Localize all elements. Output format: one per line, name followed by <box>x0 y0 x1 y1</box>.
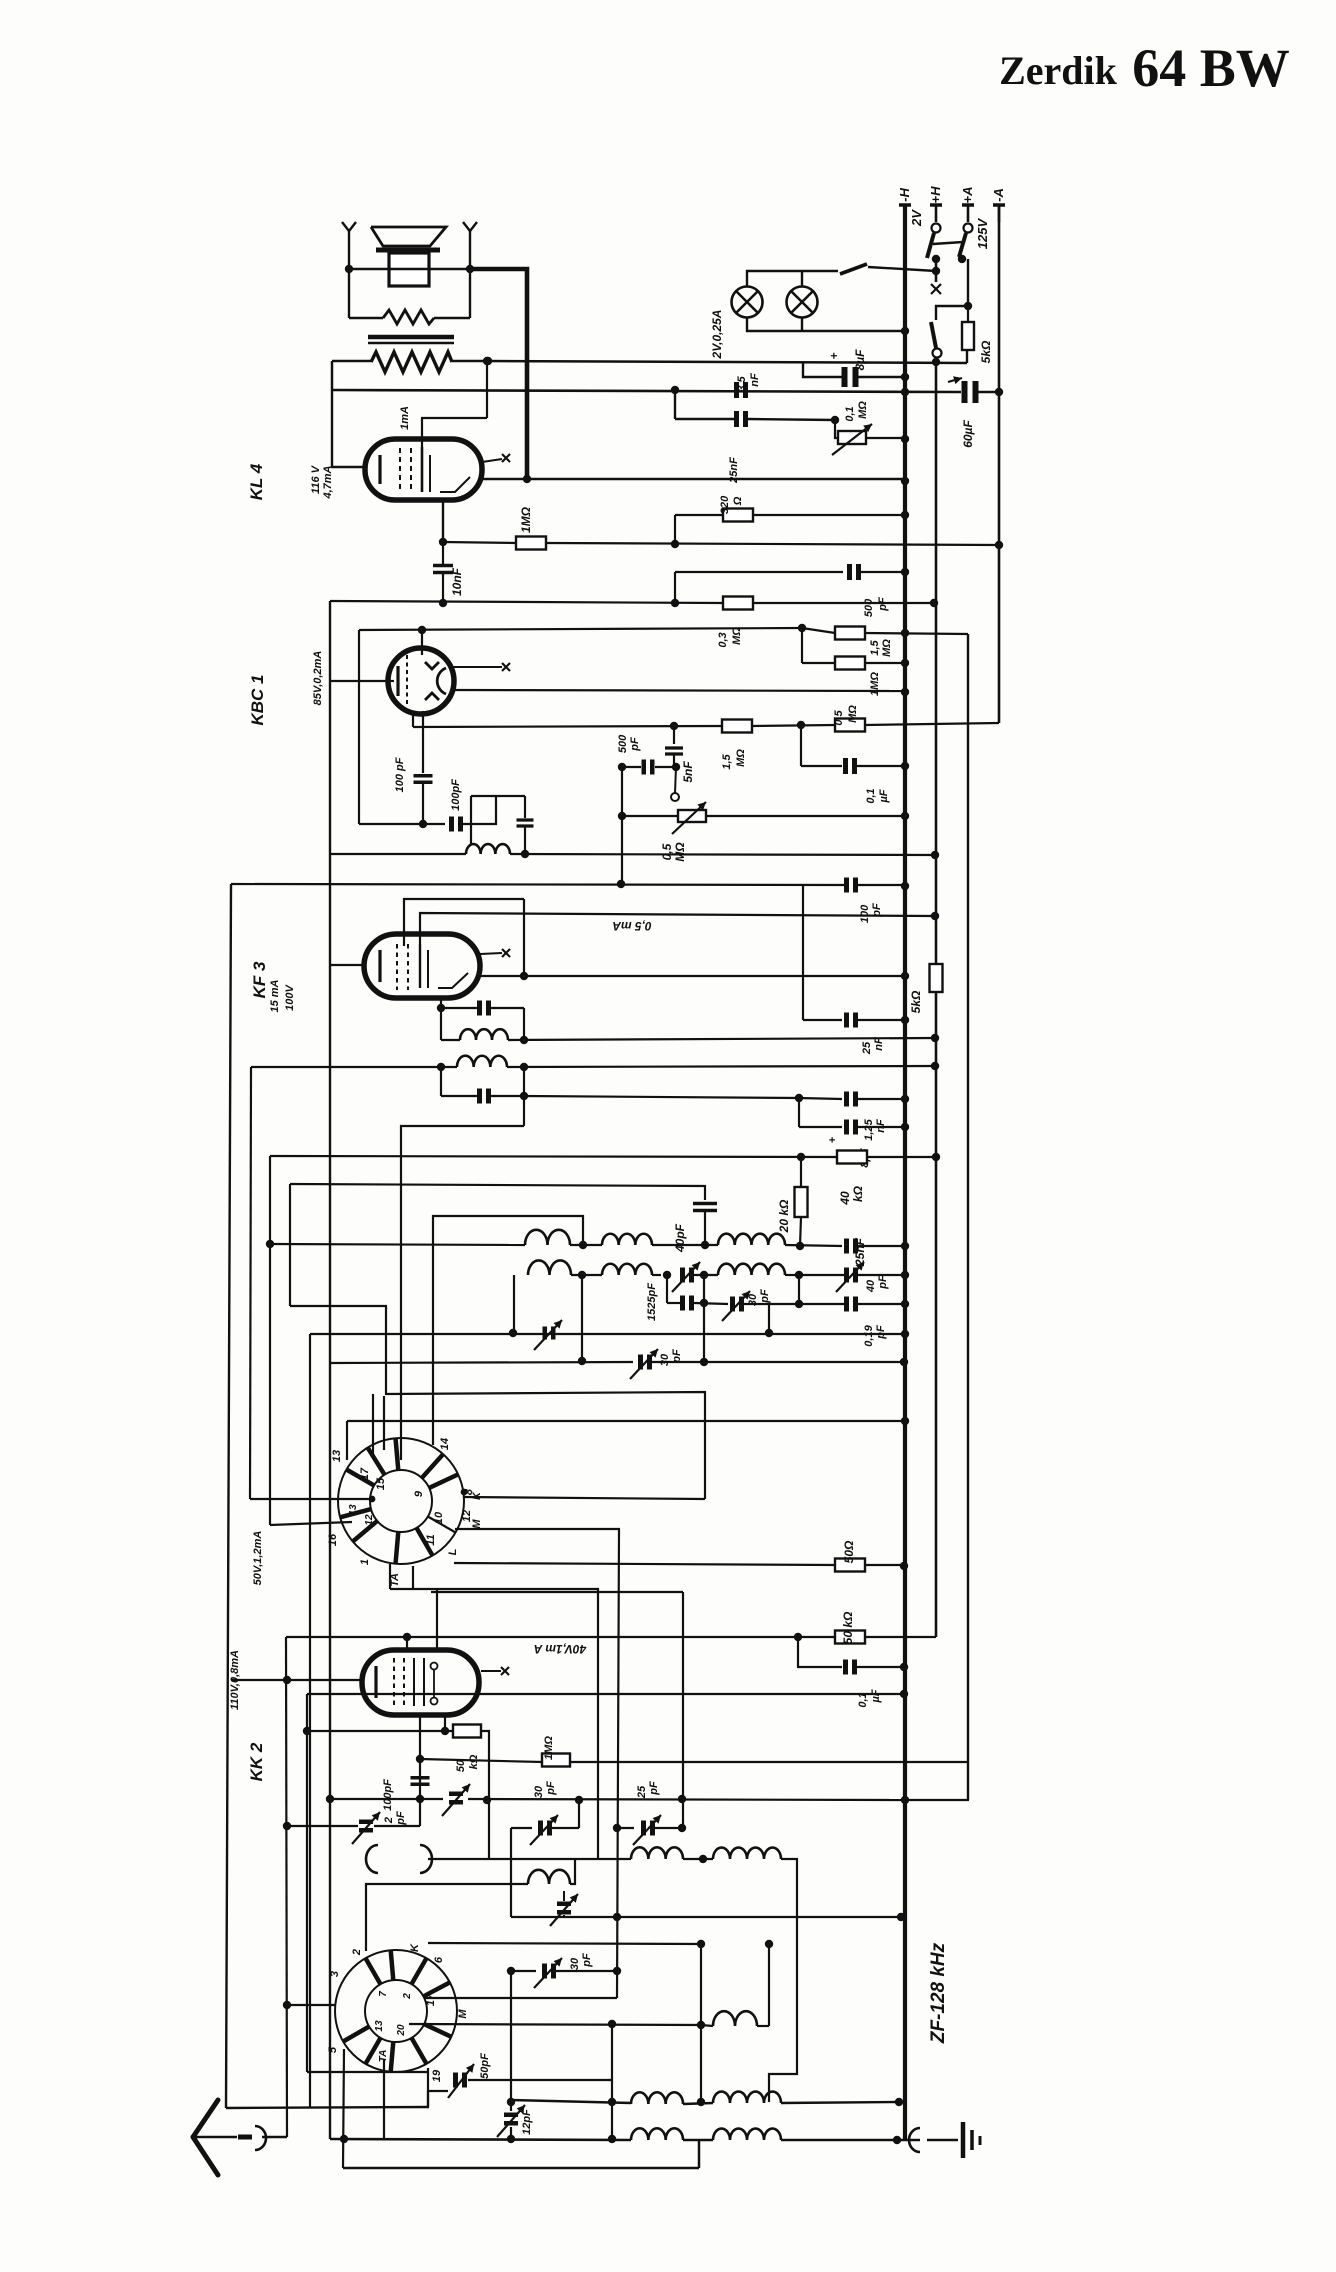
wire osc top <box>366 1884 528 1951</box>
tube KL4 anode <box>421 447 424 492</box>
svg-text:12pF: 12pF <box>521 2109 533 2135</box>
svg-text:5kΩ: 5kΩ <box>909 990 923 1013</box>
svg-text:25nF: 25nF <box>853 1237 867 1267</box>
wire 582 drop2 <box>581 1275 583 1361</box>
wire voicecoil left <box>349 317 383 319</box>
wire screen to row361 <box>486 361 488 418</box>
capacitor 0.19pF <box>844 1297 849 1312</box>
tube KK2 grids <box>393 1658 395 1706</box>
wire 511 vert3 <box>510 2127 512 2139</box>
svg-text:30: 30 <box>659 1353 671 1366</box>
svg-text:+: + <box>827 1136 839 1143</box>
wire KBC1 bottom pin <box>412 711 414 727</box>
svg-text:M: M <box>457 2009 469 2019</box>
wire row 1020 <box>803 1019 842 1021</box>
tube KF3 anode <box>419 944 421 988</box>
junction cathode rail <box>523 475 531 483</box>
wire KBC1 anode <box>421 630 423 655</box>
switch S1 on +H rail <box>932 224 941 233</box>
wire row 1067 left <box>251 1066 457 1068</box>
junction KBC1 anode top <box>418 626 426 634</box>
svg-text:kΩ: kΩ <box>468 1754 480 1769</box>
tube KF3 cathode <box>378 950 381 982</box>
tube KBC1 diode plates <box>425 662 439 669</box>
wire KF3 grid2 top <box>420 913 935 944</box>
wire row 1828 a2 <box>552 1827 579 1829</box>
svg-text:50pF: 50pF <box>479 2053 491 2079</box>
wire socket pinL row <box>454 1563 835 1565</box>
wire row 1275 r3 <box>858 1274 905 1276</box>
wire jog 1126 <box>401 1126 524 1460</box>
junction speaker wires <box>345 265 353 273</box>
wire row 1799 <box>330 1798 443 1800</box>
junction row2005 <box>283 2001 291 2009</box>
svg-text:0,3: 0,3 <box>717 632 729 647</box>
wire lamp top rail <box>747 271 838 287</box>
svg-text:13: 13 <box>331 1450 343 1462</box>
svg-text:Ω: Ω <box>732 496 744 506</box>
wire row 2140 b <box>683 2139 713 2142</box>
svg-text:60µF: 60µF <box>961 420 975 448</box>
wire 617 drop dots <box>616 1827 618 1829</box>
wire row 1828 b <box>617 1827 634 1829</box>
x mark KK2 pin <box>481 1670 501 1672</box>
wire row 1731 <box>307 1730 452 1732</box>
wire row 2026 c <box>757 2025 769 2027</box>
wire row 2099 left <box>511 2100 631 2103</box>
svg-text:2V,0,25A: 2V,0,25A <box>710 310 724 360</box>
wire socket top verts <box>372 1394 374 1455</box>
wire +H to lamp line <box>935 271 938 282</box>
wire row 1304 <box>667 1302 680 1304</box>
coil L14 <box>631 2092 683 2104</box>
wire LC right b <box>524 827 526 854</box>
wire row 1304 r <box>769 1303 845 1305</box>
wire vert 251 <box>250 1067 251 1499</box>
wire row 854 b <box>510 854 935 855</box>
wire row 824 <box>359 823 445 825</box>
tube socket oscillator <box>335 1950 457 2072</box>
terminal -A stub <box>993 203 1005 207</box>
junction pot row <box>618 812 626 820</box>
wire voicecoil right <box>434 317 470 319</box>
junction row543 <box>671 540 679 548</box>
svg-text:ZF-128 kHz: ZF-128 kHz <box>928 1942 949 2044</box>
svg-text:0,5: 0,5 <box>660 843 674 860</box>
coil L7 <box>528 1260 571 1275</box>
wire row 1127 b <box>858 1126 905 1128</box>
wire row 1859 b <box>683 1858 713 1860</box>
junction row2102 rail <box>895 2098 903 2106</box>
svg-text:2: 2 <box>351 1949 363 1956</box>
speaker cone <box>371 227 446 246</box>
svg-text:pF: pF <box>877 1275 889 1290</box>
wire row 663 b <box>865 662 905 664</box>
svg-text:85V,0,2mA: 85V,0,2mA <box>312 651 324 706</box>
wire row 1592 stub <box>431 1591 683 1593</box>
junction 420 <box>416 1755 424 1763</box>
wire 344 vert <box>343 2049 344 2168</box>
svg-text:30: 30 <box>747 1293 759 1306</box>
svg-text:40V,1m A: 40V,1m A <box>534 1642 587 1656</box>
wire row 1099 <box>799 1098 842 1099</box>
wire row 1040 <box>508 1038 935 1040</box>
tube socket KK2 viewed from below <box>338 1438 464 1564</box>
wire row 419 <box>675 418 734 420</box>
junction plate row <box>520 972 528 980</box>
switch S3 voltage selector <box>931 322 936 348</box>
svg-text:pF: pF <box>581 1953 593 1968</box>
junction row2140 <box>340 2135 348 2143</box>
potentiometer 0.5MO wiper circle <box>671 793 679 801</box>
svg-text:40: 40 <box>838 1191 852 1206</box>
wire row 633 <box>802 628 835 633</box>
wire 8uF branch <box>803 362 844 377</box>
svg-text:100pF: 100pF <box>382 1779 394 1811</box>
resistor 1.5MO diode load <box>835 627 865 640</box>
wire row 572 b <box>860 571 905 573</box>
svg-text:MΩ: MΩ <box>731 627 743 645</box>
svg-text:4,7mA: 4,7mA <box>322 465 334 499</box>
wire row 1245 r <box>785 1245 842 1246</box>
junction row1067 <box>437 1063 445 1071</box>
wire row 727 b <box>752 725 835 726</box>
wire row 603 b <box>753 602 934 604</box>
wire LC2 bottom b <box>490 1095 524 1097</box>
switch S2 on +A rail <box>964 224 973 233</box>
junction row 361 <box>484 357 492 365</box>
coil L1 KBC1 <box>466 844 510 854</box>
wire socket left 1499 <box>250 1498 372 1500</box>
svg-text:25: 25 <box>636 1785 648 1799</box>
wire pot row 816 b <box>706 815 905 817</box>
coil L6 <box>718 1234 785 1245</box>
junction row1799 <box>326 1795 334 1803</box>
svg-text:100: 100 <box>859 904 871 923</box>
wire osc top b <box>570 1859 575 1884</box>
wire row 515 b <box>753 514 905 516</box>
wire row 2005 <box>287 2004 336 2006</box>
coil L4 <box>525 1230 570 1245</box>
tube KBC1 envelope <box>388 648 454 714</box>
wire antenna to vert <box>262 2136 287 2138</box>
junction row1859 <box>699 1855 707 1863</box>
x mark KBC1 pin <box>453 666 502 668</box>
wire row 1275 r <box>785 1274 799 1276</box>
capacitor trimmer 25pF band <box>641 1821 646 1836</box>
wire 675 drop to 419 <box>674 390 676 419</box>
capacitor trimmer 30pF band <box>538 1821 543 1836</box>
wire rail -H vertical <box>903 205 907 2140</box>
svg-text:125V: 125V <box>975 217 990 249</box>
capacitor 2nd IF <box>680 1296 685 1311</box>
wire LC2 right <box>523 1067 525 1126</box>
coil L12 osc <box>528 1870 570 1884</box>
wire 513 up <box>513 1275 515 1333</box>
tube KL4 cathode <box>378 455 381 484</box>
junction 799 1098 <box>795 1094 803 1102</box>
svg-text:KK 2: KK 2 <box>247 1742 266 1781</box>
svg-text:15: 15 <box>375 1477 387 1490</box>
junction row1971 <box>507 1967 515 1975</box>
junction row1245 l <box>266 1240 274 1248</box>
capacitor 10nF <box>433 564 453 567</box>
junction row884 <box>617 880 625 888</box>
junction row628 <box>798 624 806 632</box>
wire rail 936 upper <box>935 362 938 964</box>
coil L16 <box>631 2128 683 2140</box>
wire KF3 524 drop <box>523 899 525 976</box>
wire row 1246 r2 <box>858 1245 905 1247</box>
wire KF3 grid <box>330 964 364 966</box>
wire row 1099 b <box>858 1098 905 1100</box>
wire socket pin12 row <box>455 1529 619 1998</box>
potentiometer 0.1MO <box>838 431 866 444</box>
wire row 2139 <box>330 2139 631 2140</box>
wire row 1157 b <box>867 1156 936 1158</box>
wire row 1917 <box>511 1916 901 1918</box>
svg-text:100V: 100V <box>284 983 296 1010</box>
junction row572 rail <box>901 568 909 576</box>
wire row 2140 c <box>781 2139 920 2142</box>
wire socket bottom stub2 <box>412 1566 414 1589</box>
svg-text:100 pF: 100 pF <box>394 757 406 792</box>
wire 5nF top <box>673 726 675 744</box>
wire speaker top rail <box>349 268 470 270</box>
wire pot wiper <box>675 767 676 793</box>
wire 20k top <box>800 1157 802 1187</box>
wire row 1332 <box>310 1333 905 1335</box>
junction socket pin15 <box>369 1496 376 1503</box>
resistor 1MO diode <box>835 657 865 670</box>
capacitor 3.5nF <box>734 382 739 398</box>
junction 441 1008 <box>437 1004 445 1012</box>
svg-text:pF: pF <box>648 1781 660 1796</box>
resistor 50O <box>835 1559 865 1572</box>
wire KL4 screen <box>422 418 487 447</box>
tube KL4 grid dashed <box>399 448 401 492</box>
svg-text:pF: pF <box>877 597 889 612</box>
wire row 1667 b <box>857 1666 904 1668</box>
wire row 1762 b <box>570 1761 968 1763</box>
capacitor 25nF tone <box>734 411 739 427</box>
wire row 1759 <box>420 1759 542 1762</box>
wire 699 up <box>698 2141 701 2168</box>
junction row1731 <box>303 1727 311 1735</box>
wire 701 vert <box>700 1944 702 2102</box>
wire KL4 cathode to rail <box>482 478 905 480</box>
svg-text:MΩ: MΩ <box>847 705 859 723</box>
wire row 1275 m2 <box>652 1274 661 1276</box>
tube KK2 cathode <box>374 1666 377 1698</box>
svg-text:1525pF: 1525pF <box>646 1283 658 1321</box>
wire row 663 <box>802 662 835 664</box>
junction row663 rail <box>901 659 909 667</box>
junction row1637 <box>794 1633 802 1641</box>
wire row 1859 c <box>769 1859 797 2102</box>
capacitor 100pF osc <box>411 1776 430 1779</box>
capacitor 5nF <box>665 746 683 749</box>
wire 799 vert2 <box>798 1275 800 1304</box>
wire HT row 390 <box>332 390 961 392</box>
capacitor trimmer osc1 <box>557 1902 571 1907</box>
junction row390 tap <box>671 386 679 394</box>
wire row 1361 b <box>652 1361 904 1363</box>
wire row 1390 <box>290 1306 705 1499</box>
wire speaker right <box>469 240 471 318</box>
wire 5nF bottom <box>673 755 675 767</box>
wire row 767 <box>622 766 641 768</box>
wire row 824 b <box>462 796 496 824</box>
svg-text:pF: pF <box>875 1325 887 1340</box>
svg-text:+A: +A <box>960 187 975 204</box>
wire vert 231 <box>226 884 231 2108</box>
svg-text:1,25: 1,25 <box>863 1118 875 1140</box>
svg-text:-H: -H <box>897 188 912 202</box>
capacitor 500pF AVC <box>642 760 647 775</box>
wire HT row 361 right <box>452 361 967 363</box>
coil L5 <box>602 1234 652 1245</box>
wire 704 vert <box>703 1275 705 1362</box>
wire row 1799 b <box>468 1799 905 1800</box>
wire LC1 base l <box>441 1039 460 1041</box>
svg-text:pF: pF <box>671 1349 683 1364</box>
svg-text:1: 1 <box>359 1559 371 1565</box>
svg-text:30: 30 <box>569 1957 581 1970</box>
resistor voice coil zigzag <box>383 310 434 324</box>
coil L13 <box>713 2011 757 2026</box>
ground symbol <box>909 2128 920 2152</box>
wire row 1275 m <box>571 1274 602 1276</box>
wire row 1694 <box>307 1693 904 1695</box>
junction row1275 <box>578 1271 586 1279</box>
svg-text:pF: pF <box>629 737 641 752</box>
svg-text:5: 5 <box>327 2046 339 2053</box>
wire 511 vert2 <box>510 1971 512 2111</box>
capacitor 40pF series <box>693 1202 717 1206</box>
wire KBC1 grid row <box>330 680 388 682</box>
wire socket left 1525 <box>270 1522 352 1525</box>
wire row 1245 m2 <box>652 1244 718 1246</box>
wire vert 290 <box>289 1184 291 1306</box>
x mark KL4 pin <box>482 459 502 462</box>
wire rail -A <box>998 205 1001 723</box>
svg-text:14: 14 <box>439 1438 451 1450</box>
wire 667 drop <box>666 1275 668 1303</box>
junction row1694 rail <box>900 1690 908 1698</box>
wire 347 drop <box>346 1421 348 1460</box>
resistor 320O <box>723 509 753 522</box>
potentiometer 0.5MO body <box>678 810 706 822</box>
wire 798 drop <box>798 1637 842 1667</box>
wire 10nF bottom <box>442 573 444 603</box>
junction 524 1096 <box>520 1092 528 1100</box>
svg-text:500: 500 <box>617 734 629 753</box>
wire row 1589 <box>390 1589 598 1859</box>
capacitor 100pF series <box>449 817 454 832</box>
junction row419 <box>831 416 839 424</box>
wire pin19 down <box>428 2068 448 2091</box>
junction row633 rail <box>901 629 909 637</box>
wire socket pin K row <box>464 1497 705 1499</box>
capacitor trimmer 30pF osc <box>542 1964 547 1979</box>
capacitor 1.25nF <box>844 1092 849 1107</box>
wire row 515 <box>675 514 723 516</box>
svg-text:MΩ: MΩ <box>857 401 869 419</box>
svg-text:15 mA: 15 mA <box>269 979 281 1012</box>
svg-text:19: 19 <box>431 2069 443 2082</box>
resistor 0.5MO row727 <box>835 719 865 732</box>
wire LC1 right <box>523 1008 525 1040</box>
wire socket top verts2 <box>383 1396 385 1450</box>
capacitor trimmer 50pF <box>453 2073 458 2088</box>
svg-text:13: 13 <box>374 2020 385 2032</box>
wire 622 vertical <box>621 767 623 884</box>
capacitor 0.1uF bias <box>843 1660 848 1675</box>
wire row 603 <box>330 601 723 603</box>
switch S4 lamp <box>840 264 867 274</box>
wire pin19 ext <box>427 2091 429 2107</box>
junction pot rail <box>901 435 909 443</box>
speaker magnet <box>389 253 429 286</box>
svg-text:MΩ: MΩ <box>673 842 687 862</box>
junction row1565 rail <box>900 1562 908 1570</box>
svg-text:0,1: 0,1 <box>844 406 856 421</box>
terminal +H stub <box>930 203 942 207</box>
svg-text:320: 320 <box>719 495 731 514</box>
wire KF3 plate row <box>480 975 905 977</box>
wire lamp bottom rail <box>747 317 905 331</box>
wire lamp switch to rail <box>868 267 936 271</box>
wire LC2 left <box>440 1067 442 1096</box>
resistor 40kO <box>837 1151 867 1164</box>
svg-text:+H: +H <box>928 186 943 204</box>
resistor 50kO bias <box>835 1631 865 1644</box>
tube KK2 envelope <box>362 1650 479 1715</box>
wire KBC1 top row <box>359 628 802 630</box>
wire KL4 anode down <box>442 500 444 542</box>
svg-text:13: 13 <box>348 1504 359 1516</box>
wire 801 drop <box>800 725 802 766</box>
resistor 1MO KL4 grid <box>516 537 546 550</box>
junction row1421 rail <box>901 1417 909 1425</box>
svg-text:2: 2 <box>383 1817 395 1824</box>
wire pot row 816 <box>622 815 678 817</box>
wire row 1998 <box>424 1997 617 1999</box>
speaker terminal right <box>463 222 477 231</box>
wire pot to rail <box>866 437 905 439</box>
wire HT row 361 left <box>332 360 371 363</box>
wire row1800 ext <box>905 1799 969 1801</box>
wire LC top <box>471 795 525 797</box>
capacitor 8uF cathode <box>844 1120 849 1135</box>
wire vertical 330 long <box>329 601 331 2139</box>
junction row1275 rail <box>901 1271 909 1279</box>
wire KBC1 cathode down <box>422 711 424 773</box>
wire row 1067 right <box>507 1066 935 1067</box>
wire 802 drop <box>801 628 803 663</box>
tube KBC1 grid dashed <box>406 655 408 705</box>
junction row1020 rail <box>901 1016 909 1024</box>
wire row 767 b <box>655 766 676 768</box>
wire 50pF link <box>468 2079 612 2081</box>
svg-text:11: 11 <box>425 1534 437 1545</box>
x mark end of +H <box>931 284 941 294</box>
antenna <box>193 2100 218 2137</box>
lamp LA2 <box>787 287 818 318</box>
wire 675 up <box>674 515 676 544</box>
wire speaker left <box>348 240 350 318</box>
